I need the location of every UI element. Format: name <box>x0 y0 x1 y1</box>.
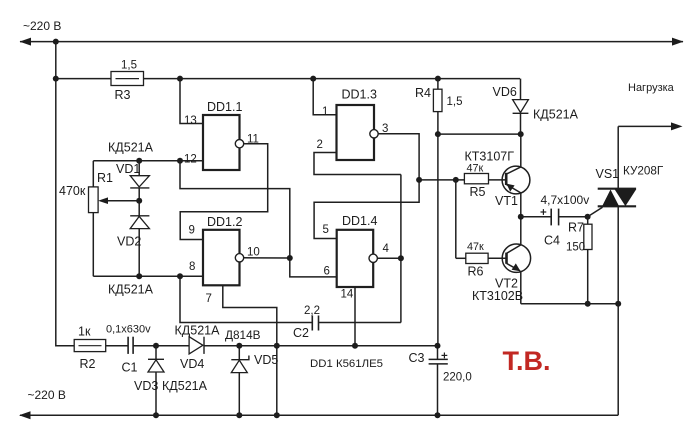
svg-text:220,0: 220,0 <box>443 372 472 384</box>
wire pin8 to C2 left plate <box>180 276 312 322</box>
svg-text:R1: R1 <box>97 171 113 185</box>
resistor R2 <box>74 340 106 352</box>
svg-text:Нагрузка: Нагрузка <box>628 82 675 94</box>
svg-text:КД521А: КД521А <box>533 108 579 122</box>
node junction VD5 bottom rail <box>236 412 242 418</box>
svg-text:КУ208Г: КУ208Г <box>623 165 664 178</box>
transistor VT2 <box>502 244 530 272</box>
svg-text:DD1.4: DD1.4 <box>342 214 377 228</box>
node junction pin3 net / R5 branch <box>416 177 422 183</box>
node DD1.1 output bubble pin 11 <box>235 140 243 148</box>
node junction C3 top / supply row <box>435 343 441 349</box>
svg-text:2: 2 <box>317 139 323 151</box>
svg-text:DD1.3: DD1.3 <box>342 88 377 102</box>
wire R2 to C1 <box>106 345 128 347</box>
wire top rail ~220V <box>20 41 683 43</box>
wire R5 to VT1 base <box>489 179 507 181</box>
node junction left bus / R3 row <box>53 76 59 82</box>
node junction VD3 bottom rail <box>153 412 159 418</box>
node junction top rail / left bus <box>53 39 59 45</box>
svg-text:Д814В: Д814В <box>225 328 261 342</box>
capacitor C2 <box>311 316 313 331</box>
wire triac bottom to rail <box>617 304 619 415</box>
svg-text:VD4: VD4 <box>180 357 204 371</box>
wire C2 right plate up <box>319 322 401 324</box>
svg-text:КД521А: КД521А <box>162 379 208 393</box>
svg-text:VD2: VD2 <box>117 235 141 249</box>
svg-text:C1: C1 <box>122 361 138 375</box>
wire bottom rail <box>20 414 618 416</box>
svg-text:КТ3102В: КТ3102В <box>472 289 523 303</box>
wire VT2 emitter down <box>520 271 522 304</box>
svg-text:1,5: 1,5 <box>121 60 137 72</box>
svg-text:4,7х100v: 4,7х100v <box>541 193 590 207</box>
svg-text:5: 5 <box>323 224 329 236</box>
wire pin 7 to ground rail <box>223 285 277 415</box>
svg-text:VD6: VD6 <box>493 85 517 99</box>
svg-text:0,1х630v: 0,1х630v <box>106 324 151 336</box>
node junction VD3 top <box>153 343 159 349</box>
svg-text:7: 7 <box>206 293 212 305</box>
node load arrowhead <box>671 122 683 130</box>
wire R4 bottom long vertical to C3 <box>437 112 439 346</box>
svg-text:1к: 1к <box>78 325 91 339</box>
resistor R1 potentiometer <box>89 187 99 213</box>
svg-text:470к: 470к <box>59 184 86 198</box>
svg-text:8: 8 <box>189 261 195 273</box>
capacitor C3 electrolytic <box>437 346 439 360</box>
svg-text:R2: R2 <box>80 357 96 371</box>
wire emitter row to triac <box>521 303 618 305</box>
wire pin11 to pin9 of DD1.2 <box>180 144 268 240</box>
node junction pin4 output on C2 net <box>398 255 404 261</box>
svg-text:VD1: VD1 <box>116 162 140 176</box>
svg-text:13: 13 <box>184 115 197 127</box>
svg-text:~220 В: ~220 В <box>28 388 66 402</box>
svg-text:R3: R3 <box>115 88 131 102</box>
svg-text:150: 150 <box>566 242 585 254</box>
svg-text:~220 В: ~220 В <box>23 19 61 33</box>
diode VD6 <box>520 79 522 100</box>
node junction pin10 output <box>287 255 293 261</box>
node DD1.3 output bubble pin 3 <box>370 130 378 138</box>
resistor R3 <box>111 72 144 86</box>
wire VT1 emitter down <box>520 193 522 217</box>
node junction VD6 bottom / VT1 collector <box>518 131 524 137</box>
node junction R4 bottom / VD6 row <box>435 131 441 137</box>
wire pin4 output <box>377 257 401 259</box>
node junction pin12 / wireA <box>177 158 183 164</box>
svg-text:6: 6 <box>324 266 330 278</box>
svg-text:C2: C2 <box>293 326 309 340</box>
node junction pin13 branch <box>177 76 183 82</box>
node junction gate / R7 top <box>585 214 591 220</box>
triac VS1 <box>617 126 619 188</box>
wire pin 1 branch <box>313 79 336 115</box>
node DD1.2 output bubble pin 10 <box>235 254 243 262</box>
wire to R6 <box>456 257 466 259</box>
wire C4 row <box>521 216 551 218</box>
transistor VT1 <box>502 166 530 194</box>
wire C4 to gate node <box>559 216 588 218</box>
svg-text:VD3: VD3 <box>134 379 158 393</box>
svg-text:4: 4 <box>383 243 390 255</box>
node top-left arrowhead <box>20 38 32 46</box>
node junction pin8 / C2 branch <box>177 273 183 279</box>
svg-text:12: 12 <box>184 154 197 166</box>
wire C2 net vertical <box>400 175 402 323</box>
node top-right arrowhead <box>672 38 684 46</box>
svg-text:2,2: 2,2 <box>304 305 320 317</box>
wire pin 13 of DD1.1 <box>180 79 203 124</box>
wire pin3 output to base divider and pin5 <box>314 134 419 239</box>
svg-text:R5: R5 <box>470 185 486 199</box>
resistor R7 <box>587 217 589 224</box>
wire R1 wiper <box>100 200 139 202</box>
node junction VT1-VT2 / C4 <box>518 214 524 220</box>
diode VD1 <box>138 161 140 176</box>
node junction VD1 top <box>136 158 142 164</box>
node junction triac bottom <box>615 301 621 307</box>
resistor R4 <box>437 79 439 90</box>
resistor R6 <box>466 253 488 263</box>
wire R1 bottom lead <box>92 213 94 277</box>
svg-text:КД521А: КД521А <box>108 141 154 155</box>
svg-text:VS1: VS1 <box>596 167 620 181</box>
node junction VD2 bottom <box>136 273 142 279</box>
svg-text:3: 3 <box>382 123 388 135</box>
node DD1.4 output bubble pin 4 <box>369 254 377 262</box>
wire pin 8 row bottom of subcircuit <box>93 275 203 277</box>
svg-text:C4: C4 <box>544 234 560 248</box>
wire VT1 collector up <box>520 134 522 167</box>
op-amp DD1.3 gate box <box>337 105 375 160</box>
node junction R5/R6 branch <box>453 177 459 183</box>
svg-text:9: 9 <box>189 225 195 237</box>
wire pin 2 to C2 vertical <box>314 153 401 175</box>
svg-text:DD1.1: DD1.1 <box>207 100 242 114</box>
svg-text:47к: 47к <box>467 163 484 175</box>
svg-text:14: 14 <box>341 289 354 301</box>
node bottom-left arrowhead <box>19 411 31 419</box>
wire pin10 output <box>243 257 289 259</box>
node junction R7 bottom <box>585 301 591 307</box>
wire R1 top / pin 12 row <box>93 160 203 162</box>
svg-text:VD5: VD5 <box>254 353 278 367</box>
wire R1 top lead <box>92 161 94 187</box>
zener diode VD5 <box>238 346 240 360</box>
node junction pin7 / R2 row <box>274 343 280 349</box>
svg-text:10: 10 <box>247 247 260 259</box>
node junction pin7 / bottom rail <box>274 412 280 418</box>
resistor R5 <box>464 174 488 184</box>
wire VD6 row <box>438 133 520 135</box>
node C3 plus sign <box>442 354 448 356</box>
wire triac gate diagonal <box>588 207 603 217</box>
node junction C3 bottom rail <box>435 412 441 418</box>
svg-text:DD1 К561ЛЕ5: DD1 К561ЛЕ5 <box>310 358 383 370</box>
node R1 wiper arrowhead <box>98 197 108 204</box>
svg-text:11: 11 <box>247 134 259 146</box>
wire pin 14 to supply row <box>354 287 356 346</box>
svg-text:1: 1 <box>322 106 328 118</box>
wire R6 to VT2 base <box>488 257 506 259</box>
svg-text:VT1: VT1 <box>495 194 518 208</box>
diode VD2 <box>138 201 140 216</box>
op-amp DD1.2 gate box <box>203 230 240 285</box>
wire A pin12 net to pin10 and pin6 <box>180 161 337 277</box>
svg-text:R6: R6 <box>468 265 484 279</box>
wire VD4 to right <box>204 345 438 347</box>
capacitor C1 <box>127 337 129 354</box>
svg-text:DD1.2: DD1.2 <box>207 215 242 229</box>
svg-text:1,5: 1,5 <box>447 96 463 108</box>
wire R6 branch vertical <box>455 180 457 258</box>
svg-text:C3: C3 <box>409 351 425 365</box>
diode VD4 <box>189 337 203 354</box>
wire R5 row from pin3 junction <box>419 179 464 181</box>
svg-text:КТ3107Г: КТ3107Г <box>465 150 515 164</box>
capacitor C4 <box>550 209 552 226</box>
node junction R4 top <box>435 76 441 82</box>
wire R3 row left lead <box>56 78 111 80</box>
node junction VD1 VD2 wiper <box>136 198 142 204</box>
wire load arrow <box>618 125 672 127</box>
wire VT2 collector up <box>520 217 522 245</box>
svg-text:Т.В.: Т.В. <box>503 346 551 376</box>
wire R3 row to VD6 <box>144 78 521 80</box>
svg-text:47к: 47к <box>467 241 484 253</box>
svg-text:КД521А: КД521А <box>108 283 154 297</box>
node junction pin1 branch <box>310 76 316 82</box>
wire left bus vertical <box>56 42 74 346</box>
op-amp DD1.4 gate box <box>337 230 374 287</box>
wire C1 to VD4 <box>133 345 189 347</box>
node C4 plus sign <box>541 211 547 213</box>
node junction VD5 top <box>236 343 242 349</box>
node junction pin14 / R2 row <box>352 343 358 349</box>
op-amp DD1.1 gate box <box>203 115 240 170</box>
svg-text:R4: R4 <box>415 86 431 100</box>
svg-text:R7: R7 <box>568 221 584 235</box>
diode VD3 <box>155 346 157 360</box>
svg-text:КД521А: КД521А <box>175 324 221 338</box>
